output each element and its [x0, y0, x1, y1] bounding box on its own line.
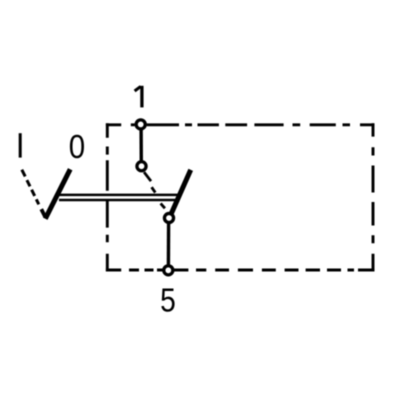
- svg-text:0: 0: [69, 127, 85, 165]
- movable contact lever (pole 1, position 0): [170, 170, 190, 216]
- enclosure boundary box (dash-dot): [106, 123, 375, 271]
- wire pivot to terminal 5: [167, 224, 171, 265]
- svg-text:5: 5: [160, 281, 176, 319]
- label I (on position): [19, 133, 22, 157]
- dashed alternate contact position (I): [144, 172, 165, 208]
- actuator lever (position 0): [45, 169, 70, 219]
- fixed contact pole 1: [137, 162, 146, 171]
- movable contact pivot: [164, 213, 173, 222]
- actuator coupling bar (double line): [57, 195, 179, 200]
- terminal 1: [136, 120, 145, 129]
- actuator lever foot: [41, 209, 45, 217]
- terminal 1 label: [135, 86, 142, 108]
- actuator dashed position I: [22, 170, 39, 205]
- wire terminal 1 to fixed contact: [139, 130, 143, 162]
- terminal 5: [164, 266, 173, 275]
